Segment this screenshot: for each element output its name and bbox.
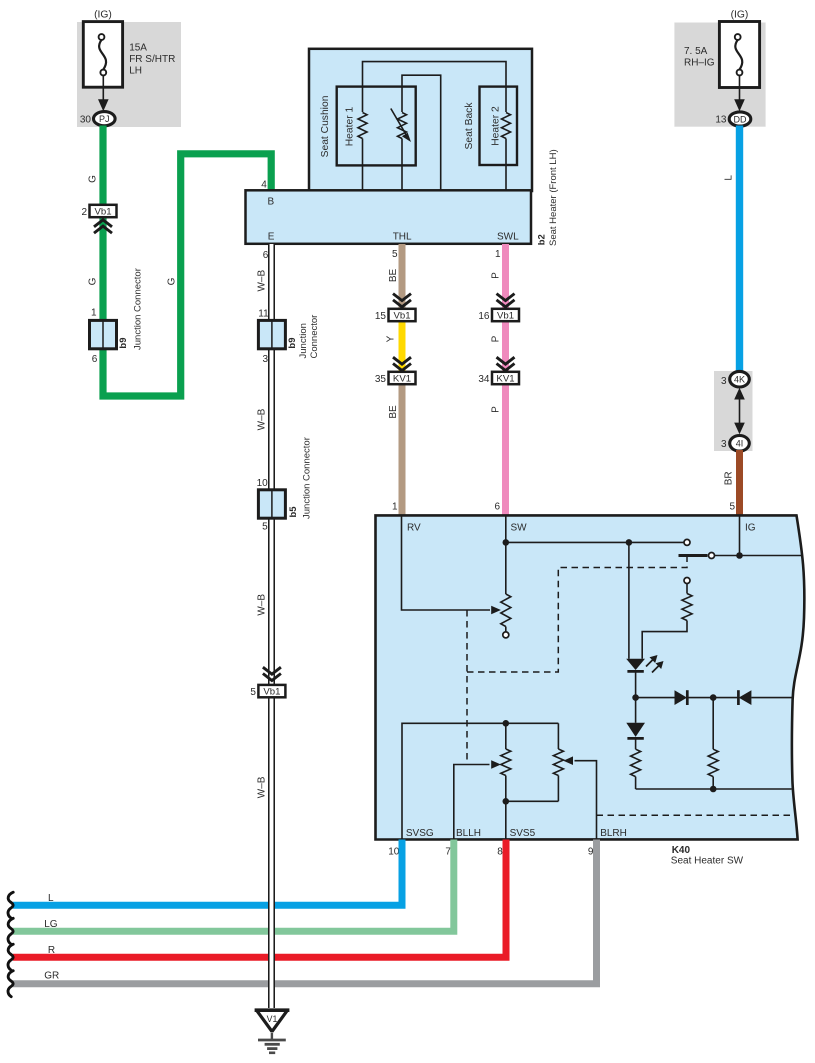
- wire BLLH to P2 wiper: [454, 765, 490, 840]
- svg-text:SW: SW: [511, 523, 528, 534]
- svg-text:W–B: W–B: [257, 776, 268, 798]
- resistor R3: [631, 749, 641, 776]
- seat heater connector bar: [246, 190, 532, 244]
- node IG junction: [736, 552, 743, 559]
- resistor heater 2: [502, 113, 511, 139]
- fuse F1 15A FR S/HTR LH: [83, 22, 122, 88]
- svg-text:15: 15: [375, 311, 387, 322]
- svg-text:IG: IG: [745, 523, 756, 534]
- svg-text:R: R: [48, 945, 55, 956]
- svg-text:10: 10: [257, 478, 269, 489]
- internal wire top bus: [363, 62, 507, 112]
- diode D3 (reversed): [737, 690, 740, 705]
- svg-text:16: 16: [478, 311, 490, 322]
- wire L blue bottom: [13, 840, 402, 906]
- node SW junction: [503, 539, 510, 546]
- svg-text:Heater 1: Heater 1: [345, 106, 356, 146]
- svg-text:BR: BR: [724, 471, 735, 485]
- svg-text:SWL: SWL: [497, 232, 519, 243]
- wire GR gray: [13, 840, 597, 984]
- svg-text:6: 6: [263, 250, 269, 261]
- svg-text:15A: 15A: [129, 43, 147, 54]
- svg-text:V1: V1: [267, 1014, 278, 1024]
- svg-text:DD: DD: [734, 114, 747, 124]
- dashed line BLRH right: [597, 814, 796, 816]
- wire SVSG internal: [402, 723, 558, 839]
- svg-text:Vb1: Vb1: [94, 207, 111, 218]
- connector 4K: [730, 371, 750, 387]
- svg-text:b2: b2: [537, 234, 548, 245]
- seat heater upper box: [309, 49, 532, 191]
- svg-text:10: 10: [388, 847, 400, 858]
- svg-text:GR: GR: [44, 971, 59, 982]
- node SVSG junction: [503, 720, 510, 727]
- heater 2 box: [480, 87, 518, 165]
- svg-text:4K: 4K: [734, 375, 745, 385]
- chevron down P1: [497, 294, 515, 301]
- svg-text:13: 13: [715, 114, 727, 125]
- svg-text:G: G: [88, 277, 99, 285]
- svg-text:4I: 4I: [736, 439, 744, 449]
- svg-text:K40: K40: [672, 845, 691, 856]
- wire R red: [13, 840, 506, 958]
- svg-text:E: E: [268, 232, 275, 243]
- pin 15 Vb1: [389, 309, 416, 321]
- fuse F2 7.5A RH-IG: [719, 22, 759, 88]
- svg-text:b5: b5: [288, 506, 299, 518]
- chevron down P2: [497, 357, 515, 364]
- ground V1 triangle: [257, 1010, 288, 1031]
- svg-text:L: L: [48, 893, 54, 904]
- chevron down W-B: [263, 667, 281, 674]
- K40 seat heater switch box: [376, 515, 805, 839]
- svg-text:(IG): (IG): [94, 10, 112, 21]
- potentiometer P3: [557, 723, 559, 749]
- svg-text:Vb1: Vb1: [393, 311, 410, 322]
- svg-text:Seat Back: Seat Back: [464, 102, 475, 150]
- wire BR brown: [736, 450, 743, 515]
- svg-text:(IG): (IG): [731, 10, 749, 21]
- node LED branch junction: [626, 539, 633, 546]
- svg-text:W–B: W–B: [257, 594, 268, 616]
- wire P2/P3 bottoms to SVS5: [506, 801, 559, 839]
- svg-text:6: 6: [92, 354, 98, 365]
- svg-text:b9: b9: [287, 338, 298, 349]
- chevron up at Vb1: [94, 220, 112, 227]
- svg-text:Seat Heater SW: Seat Heater SW: [671, 855, 744, 866]
- svg-text:1: 1: [91, 308, 97, 319]
- svg-text:5: 5: [729, 501, 735, 512]
- svg-text:BE: BE: [388, 405, 399, 419]
- svg-text:P: P: [491, 406, 502, 413]
- svg-text:KV1: KV1: [496, 374, 514, 385]
- resistor R2 top terminal: [684, 578, 690, 584]
- svg-text:Junction: Junction: [298, 323, 309, 358]
- wire heater2 to connector: [505, 139, 507, 192]
- wire fuse to PJ: [102, 75, 104, 101]
- svg-text:b9: b9: [118, 338, 129, 349]
- resistor R4: [712, 698, 714, 750]
- pin 16 Vb1: [492, 309, 519, 321]
- switch S1 lever: [679, 554, 708, 557]
- svg-text:W–B: W–B: [257, 270, 268, 292]
- ground bars: [258, 1039, 286, 1042]
- wire SW to switch contact: [506, 541, 684, 543]
- potentiometer P2: [505, 723, 507, 749]
- wire BLRH to P3 wiper: [575, 761, 597, 840]
- heater 1 box: [337, 87, 416, 166]
- svg-text:PJ: PJ: [99, 114, 110, 124]
- pin 35 KV1: [389, 372, 416, 384]
- svg-text:3: 3: [262, 354, 268, 365]
- svg-text:2: 2: [81, 207, 87, 218]
- svg-text:5: 5: [392, 249, 398, 260]
- connector DD: [729, 112, 751, 126]
- svg-text:SVS5: SVS5: [510, 828, 536, 839]
- chevron down Y: [393, 357, 411, 364]
- wire thermistor to connector: [401, 139, 403, 192]
- svg-text:LG: LG: [44, 919, 58, 930]
- wire SW internal: [505, 515, 507, 594]
- wire fuse to DD: [739, 75, 741, 101]
- junction connector b9 right: [258, 320, 285, 348]
- svg-text:3: 3: [721, 376, 727, 387]
- pin 2: [90, 205, 117, 217]
- svg-text:1: 1: [392, 501, 398, 512]
- node diode row left: [632, 694, 639, 701]
- wire Y segment: [399, 319, 406, 373]
- svg-text:Junction Connector: Junction Connector: [301, 437, 312, 519]
- svg-text:SVSG: SVSG: [406, 828, 434, 839]
- svg-text:G: G: [88, 175, 99, 183]
- svg-text:5: 5: [262, 522, 268, 533]
- svg-text:W–B: W–B: [257, 408, 268, 430]
- svg-text:Vb1: Vb1: [497, 311, 514, 322]
- svg-text:Seat Cushion: Seat Cushion: [320, 95, 331, 157]
- svg-text:BE: BE: [388, 269, 399, 283]
- svg-text:P: P: [491, 335, 502, 342]
- svg-text:11: 11: [258, 309, 269, 320]
- wire heater1 to connector: [362, 139, 364, 192]
- diode D2: [675, 690, 688, 705]
- resistor R2: [682, 594, 692, 621]
- svg-text:BLRH: BLRH: [600, 828, 627, 839]
- wire L blue from DD: [736, 126, 743, 381]
- wire LED cathode down: [635, 671, 637, 697]
- svg-text:30: 30: [80, 114, 92, 125]
- svg-text:6: 6: [494, 501, 500, 512]
- svg-text:1: 1: [495, 249, 501, 260]
- wire BE from THL: [399, 244, 406, 515]
- svg-text:RV: RV: [407, 523, 421, 534]
- wire W-B crossing over bottom wires: [268, 860, 275, 1008]
- wire switch to IG: [715, 555, 803, 557]
- svg-text:Heater 2: Heater 2: [491, 106, 502, 146]
- svg-text:RH–IG: RH–IG: [684, 58, 715, 69]
- arrow link 4K-4I: [734, 388, 745, 400]
- wire R2 to LED anode: [642, 621, 687, 659]
- svg-text:Seat Heater (Front LH): Seat Heater (Front LH): [548, 149, 559, 246]
- internal wire thermistor bus: [402, 75, 441, 191]
- svg-text:LH: LH: [129, 66, 142, 77]
- ground stem: [271, 1033, 273, 1040]
- connector 4I: [730, 436, 750, 452]
- wire W-B main run: [268, 244, 275, 1008]
- svg-text:35: 35: [375, 374, 387, 385]
- LED D1: [626, 659, 645, 670]
- svg-text:BLLH: BLLH: [456, 828, 481, 839]
- svg-text:8: 8: [497, 847, 503, 858]
- svg-text:Y: Y: [386, 335, 397, 342]
- wire diode row: [636, 697, 675, 699]
- pin 5 Vb1: [258, 685, 285, 697]
- svg-text:5: 5: [250, 687, 256, 698]
- svg-text:B: B: [268, 196, 275, 207]
- diode D4 (vertical): [635, 698, 637, 723]
- svg-text:FR S/HTR: FR S/HTR: [129, 54, 175, 65]
- svg-text:7. 5A: 7. 5A: [684, 46, 708, 57]
- connector gray box 4K/4I: [714, 371, 753, 451]
- svg-text:L: L: [724, 175, 735, 181]
- svg-text:P: P: [491, 272, 502, 279]
- svg-text:3: 3: [721, 439, 727, 450]
- svg-text:Vb1: Vb1: [263, 687, 280, 698]
- node SVS5 junction: [503, 798, 510, 805]
- svg-text:Connector: Connector: [309, 315, 320, 359]
- mechanical link dashed to switch: [467, 557, 687, 673]
- thermistor (variable resistor): [398, 113, 407, 139]
- LED D1 emission arrows: [646, 658, 655, 667]
- svg-text:G: G: [167, 277, 178, 285]
- wire RV internal to wiper: [402, 515, 491, 610]
- svg-text:4: 4: [261, 179, 267, 190]
- switch S1 fixed contact: [684, 539, 690, 545]
- pin 34 KV1: [492, 372, 519, 384]
- connector PJ: [94, 112, 116, 126]
- svg-text:THL: THL: [393, 232, 412, 243]
- junction connector b9 left: [90, 320, 117, 348]
- relay block gray box (left): [77, 22, 181, 127]
- node bottom bus: [710, 786, 717, 793]
- wire IG internal: [739, 515, 741, 555]
- resistor heater 1: [358, 113, 367, 139]
- chevron down BE: [393, 294, 411, 301]
- wire G green from PJ to seat heater pin 4: [103, 126, 271, 397]
- relay block gray box (right): [674, 23, 765, 127]
- junction connector b5: [258, 490, 285, 518]
- wire P from SWL: [502, 244, 509, 515]
- node diode row mid: [710, 694, 717, 701]
- svg-text:Junction Connector: Junction Connector: [133, 268, 144, 350]
- wire LG: [13, 840, 454, 932]
- svg-text:KV1: KV1: [393, 374, 411, 385]
- wire to LED D1: [628, 542, 630, 658]
- wire bottom bus: [636, 788, 792, 790]
- potentiometer P1 (SW): [501, 594, 511, 627]
- svg-text:34: 34: [478, 374, 490, 385]
- mechanical link dashed P1-P2: [466, 610, 468, 765]
